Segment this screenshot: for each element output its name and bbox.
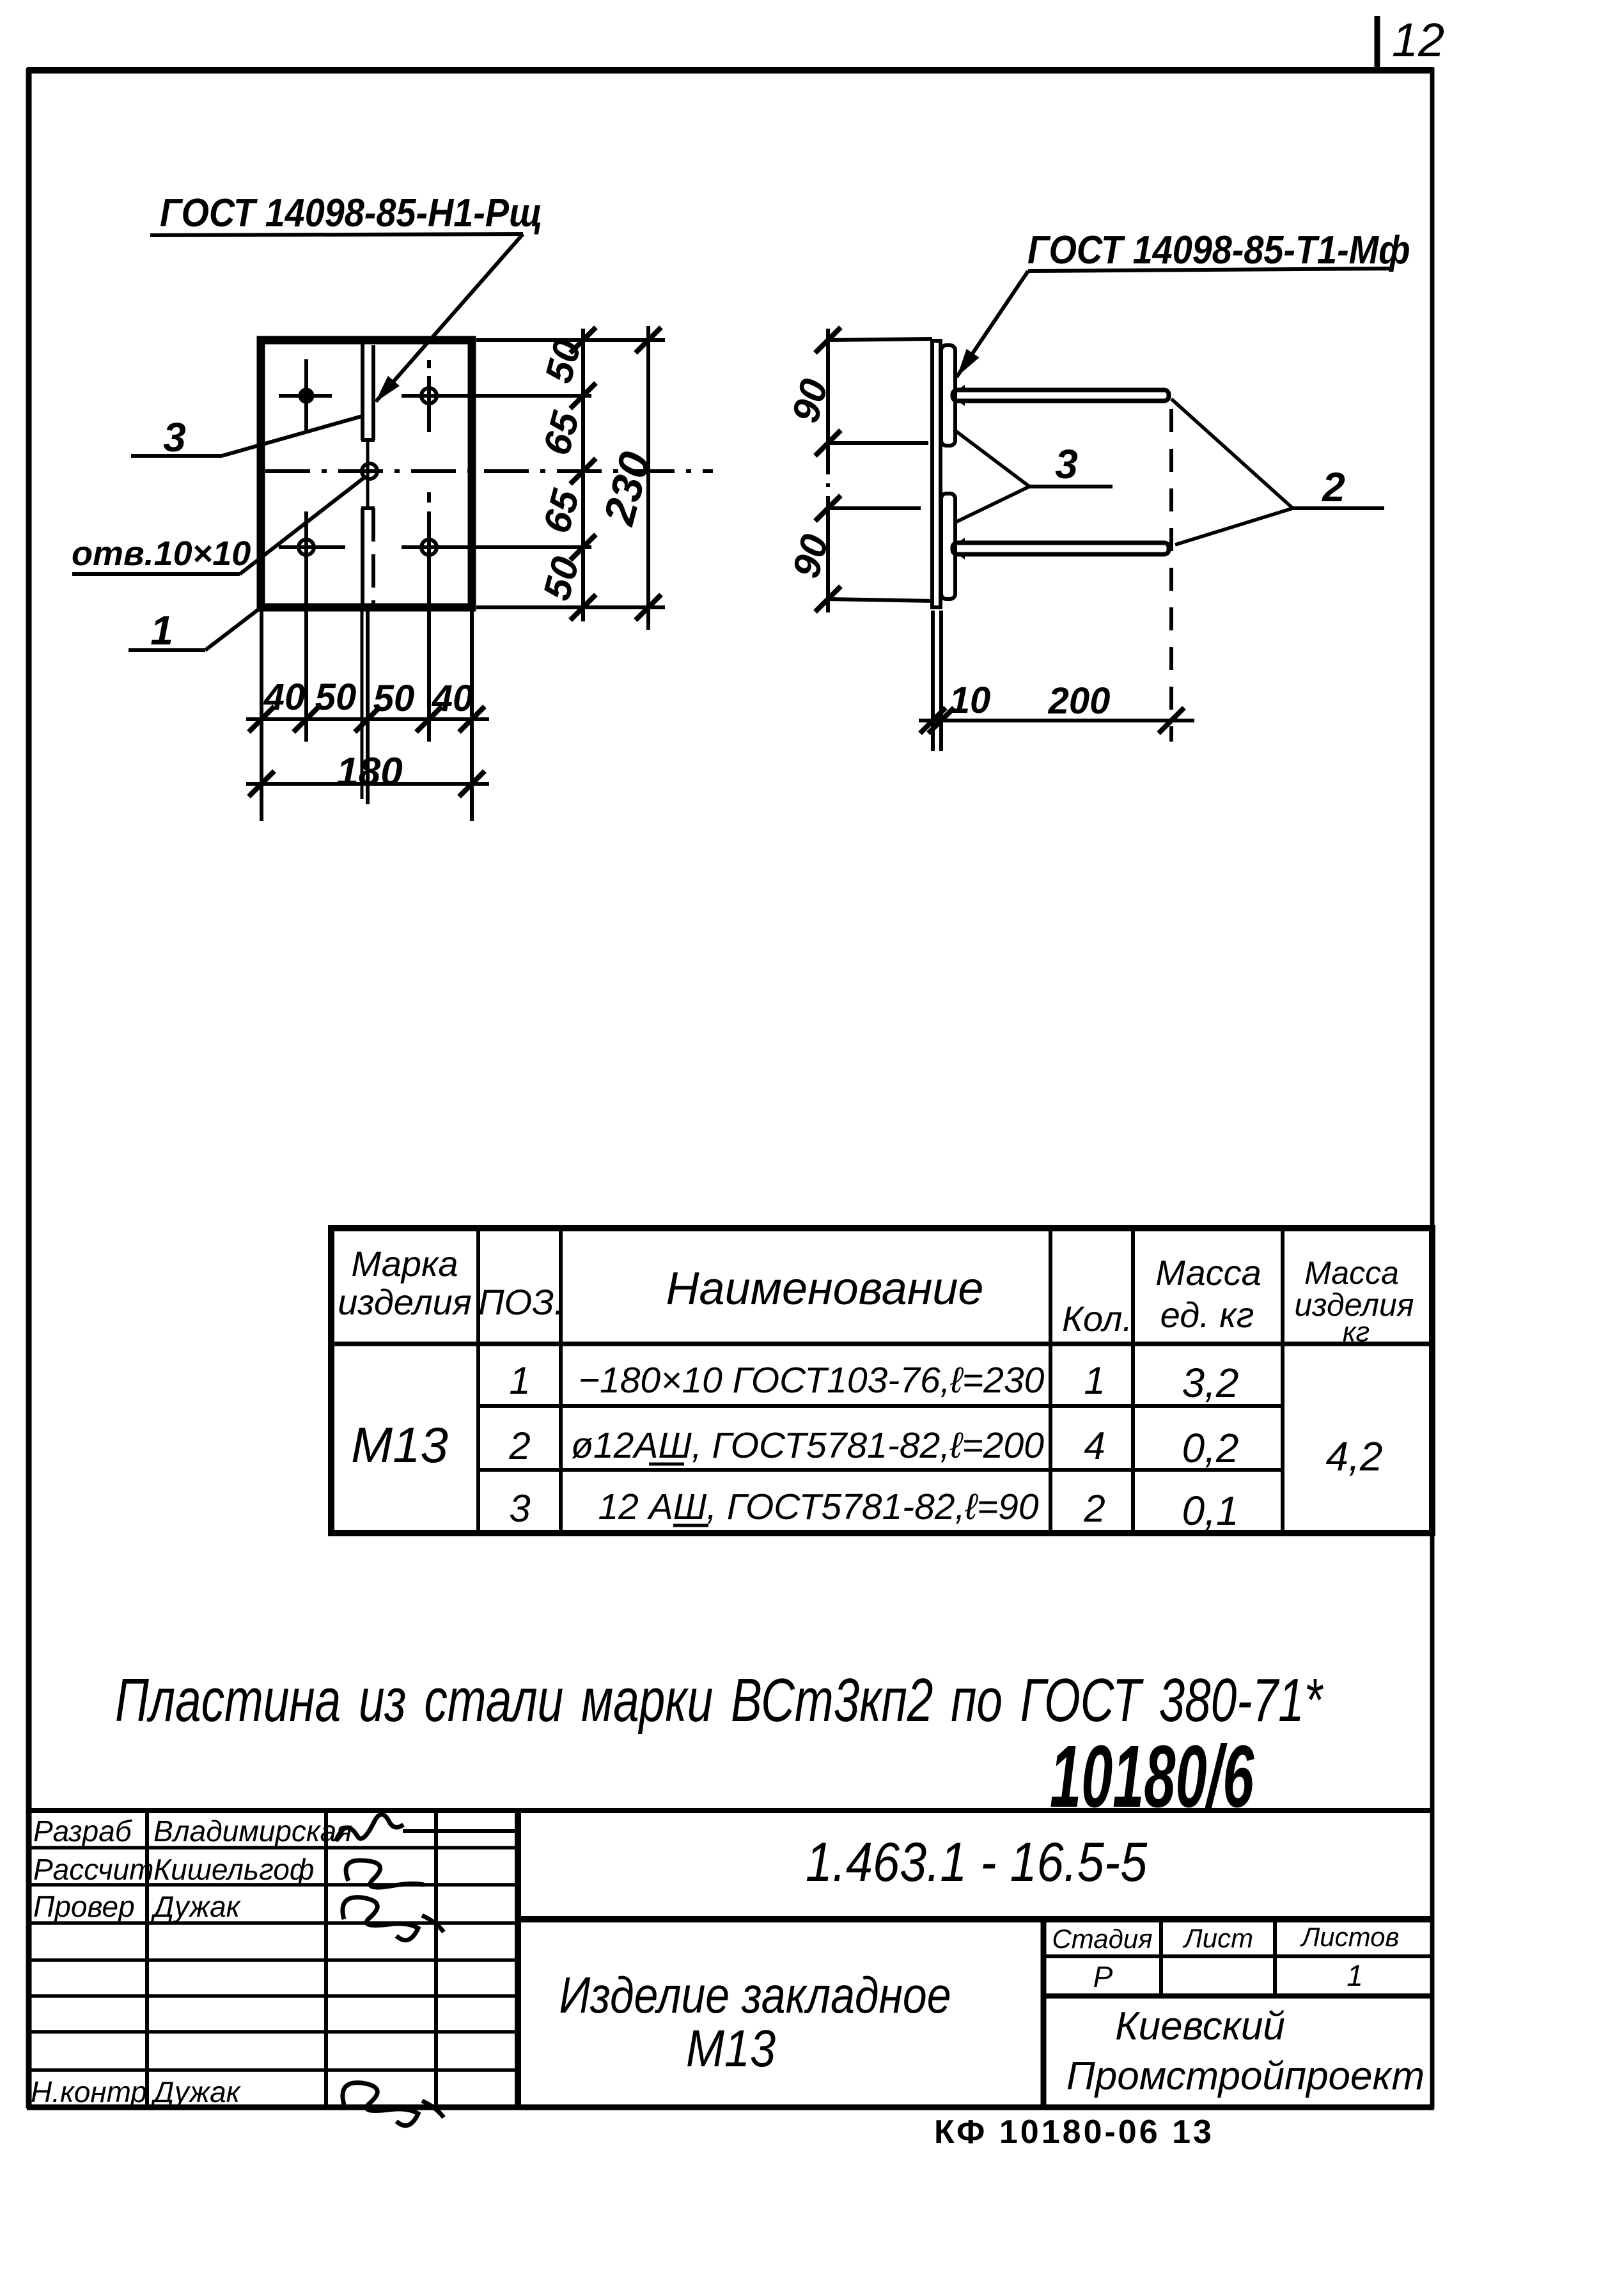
bottom dims 10 / 200 (side) xyxy=(919,409,1194,751)
svg-text:ГОСТ 14098-85-Т1-Мф: ГОСТ 14098-85-Т1-Мф xyxy=(1027,228,1410,272)
svg-text:ø12АШ, ГОСТ5781-82,ℓ=200: ø12АШ, ГОСТ5781-82,ℓ=200 xyxy=(571,1425,1044,1466)
svg-text:Провер: Провер xyxy=(33,1890,135,1923)
svg-text:4,2: 4,2 xyxy=(1326,1433,1383,1479)
svg-text:0,1: 0,1 xyxy=(1182,1488,1239,1534)
page number 12 xyxy=(1377,13,1444,69)
svg-text:40: 40 xyxy=(263,676,306,718)
svg-text:50: 50 xyxy=(373,678,415,719)
svg-text:3,2: 3,2 xyxy=(1182,1360,1239,1406)
dim texts 40/50/50/40/180 xyxy=(263,676,474,794)
small grid header xyxy=(1052,1922,1399,1993)
anchor rod P3 lower (vertical) xyxy=(941,494,955,599)
weld label GOST 14098-85-N1-Rsch xyxy=(150,191,542,407)
svg-text:изделия: изделия xyxy=(338,1282,471,1322)
label 1 xyxy=(129,606,263,653)
anchor rod P3 upper (vertical) xyxy=(941,345,955,446)
svg-text:Рассчит: Рассчит xyxy=(33,1853,153,1886)
dim texts 50/65/65/50/230 xyxy=(535,335,660,605)
svg-text:0,2: 0,2 xyxy=(1182,1425,1239,1471)
svg-text:180: 180 xyxy=(336,750,402,794)
svg-text:2: 2 xyxy=(508,1424,530,1467)
hole top-right xyxy=(402,360,591,432)
svg-text:ПОЗ.: ПОЗ. xyxy=(478,1282,564,1322)
bottom dimension chain 40/50/50/40 and 180 xyxy=(246,607,489,821)
svg-text:3: 3 xyxy=(509,1487,530,1530)
hole top-left xyxy=(279,359,332,432)
svg-text:КФ 10180-06 13: КФ 10180-06 13 xyxy=(934,2114,1214,2151)
right-side dimension chain 50/65/65/50 xyxy=(476,326,665,630)
svg-text:1: 1 xyxy=(150,607,173,653)
svg-text:50: 50 xyxy=(315,676,357,718)
centre hole otv 10x10 xyxy=(362,464,377,479)
plate P1 (side) xyxy=(932,341,941,607)
weld label GOST 14098-85-T1-Mf xyxy=(951,228,1410,380)
title block left column texts xyxy=(31,1814,352,2108)
svg-text:2: 2 xyxy=(1322,464,1345,510)
svg-text:Н.контр: Н.контр xyxy=(31,2075,147,2108)
table header texts xyxy=(338,1243,1414,1348)
A-III underline marks xyxy=(649,1464,708,1525)
svg-text:Масса: Масса xyxy=(1304,1255,1399,1291)
svg-text:−180×10 ГОСТ103-76,ℓ=230: −180×10 ГОСТ103-76,ℓ=230 xyxy=(579,1360,1045,1401)
hole bottom-left xyxy=(279,511,345,742)
svg-text:кг: кг xyxy=(1343,1316,1370,1348)
svg-text:Пластина из стали марки ВСт3кп: Пластина из стали марки ВСт3кп2 по ГОСТ … xyxy=(115,1666,1323,1734)
svg-text:Р: Р xyxy=(1093,1960,1113,1993)
svg-text:10: 10 xyxy=(949,680,991,721)
weld fillets at rod junctions xyxy=(956,385,965,559)
svg-text:40: 40 xyxy=(432,678,474,719)
plate P1 outline (plan) xyxy=(261,340,472,607)
svg-text:1: 1 xyxy=(1084,1359,1105,1402)
sheet frame xyxy=(27,68,1434,2108)
label 3 (plan) xyxy=(131,414,362,460)
anchor rod P2 lower (horizontal) xyxy=(953,543,1169,554)
weld seam upper xyxy=(361,344,375,440)
table row texts xyxy=(351,1359,1382,1534)
svg-text:Изделие закладное: Изделие закладное xyxy=(559,1967,951,2023)
svg-text:ГОСТ 14098-85-Н1-Рщ: ГОСТ 14098-85-Н1-Рщ xyxy=(160,191,542,235)
svg-text:Листов: Листов xyxy=(1300,1922,1400,1952)
svg-text:Разраб: Разраб xyxy=(33,1814,133,1848)
svg-text:1.463.1 - 16.5-5: 1.463.1 - 16.5-5 xyxy=(806,1832,1148,1894)
svg-text:М13: М13 xyxy=(351,1417,448,1473)
svg-text:Масса: Масса xyxy=(1155,1252,1261,1293)
hole bottom-right xyxy=(402,492,591,742)
svg-text:Наименование: Наименование xyxy=(666,1263,984,1314)
svg-text:Лист: Лист xyxy=(1182,1923,1253,1953)
label 2 (side) xyxy=(1171,399,1384,545)
svg-text:Промстройпроект: Промстройпроект xyxy=(1066,2054,1425,2098)
label 3 (side) xyxy=(954,430,1113,523)
svg-text:Владимирская: Владимирская xyxy=(153,1814,352,1848)
svg-text:ед. кг: ед. кг xyxy=(1160,1295,1254,1335)
svg-text:Кишельгоф: Кишельгоф xyxy=(153,1853,314,1886)
horizontal centreline xyxy=(265,469,713,473)
svg-text:Дужак: Дужак xyxy=(150,1890,242,1923)
signatures xyxy=(336,1814,520,2126)
svg-text:Киевский: Киевский xyxy=(1115,2004,1285,2048)
dim ticks (plan bottom) xyxy=(249,706,485,797)
svg-text:Кол.: Кол. xyxy=(1062,1298,1132,1339)
svg-text:12 АШ, ГОСТ5781-82,ℓ=90: 12 АШ, ГОСТ5781-82,ℓ=90 xyxy=(598,1486,1038,1527)
svg-text:Марка: Марка xyxy=(351,1243,458,1284)
svg-text:200: 200 xyxy=(1048,680,1111,722)
anchor rod P2 upper (horizontal) xyxy=(953,390,1169,401)
svg-text:1: 1 xyxy=(1347,1959,1363,1992)
svg-text:3: 3 xyxy=(1055,441,1078,487)
svg-text:3: 3 xyxy=(163,414,186,460)
svg-text:Дужак: Дужак xyxy=(150,2075,242,2108)
90 dims (side left) xyxy=(828,329,933,612)
weld seam lower xyxy=(361,508,375,604)
svg-text:М13: М13 xyxy=(686,2020,776,2078)
dim ticks (plan right) xyxy=(570,327,661,620)
seam centre line xyxy=(366,440,370,508)
svg-text:2: 2 xyxy=(1083,1487,1105,1530)
svg-text:12: 12 xyxy=(1392,13,1444,66)
svg-text:отв.10×10: отв.10×10 xyxy=(72,534,251,573)
svg-text:4: 4 xyxy=(1084,1424,1105,1467)
svg-text:1: 1 xyxy=(509,1359,530,1402)
label otv.10x10 xyxy=(72,477,365,574)
svg-text:Стадия: Стадия xyxy=(1052,1924,1152,1954)
